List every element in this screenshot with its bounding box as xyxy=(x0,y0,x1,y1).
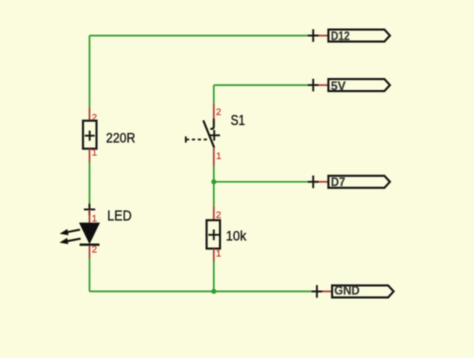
pin 1 of R1 xyxy=(89,149,91,162)
svg-text:1: 1 xyxy=(216,151,221,162)
svg-text:1: 1 xyxy=(216,249,221,260)
pennant outline of 5V flag xyxy=(328,79,390,91)
pin 2 of R2 xyxy=(213,206,215,220)
junction node GND xyxy=(211,289,216,294)
pin 2 of S1 xyxy=(213,104,215,119)
pin of D12 flag xyxy=(313,35,328,37)
wire middle vertical segment between S1 and R2 10k xyxy=(213,166,215,206)
resistor R1 220R xyxy=(83,108,135,162)
pin of 5V flag xyxy=(313,84,328,86)
origin cross of LED xyxy=(84,204,95,215)
pin of D7 flag xyxy=(313,181,328,183)
wire left vertical segment below LED xyxy=(89,258,91,291)
pennant outline of GND flag xyxy=(332,285,394,297)
origin cross of D12 flag xyxy=(308,29,319,42)
pin 2 of LED xyxy=(89,246,91,258)
wire net D12 top horizontal xyxy=(90,35,310,37)
pin 2 of R1 xyxy=(89,108,91,121)
origin cross of R1 xyxy=(85,131,95,141)
origin cross of GND flag xyxy=(312,285,323,298)
pin 1 of S1 xyxy=(213,148,215,166)
wire net 5V horizontal xyxy=(214,84,309,86)
body of R2 xyxy=(207,220,220,248)
pin 1 of R2 xyxy=(213,249,215,262)
svg-text:2: 2 xyxy=(92,244,97,255)
svg-text:10k: 10k xyxy=(226,228,247,244)
wire middle vertical segment below R2 10k xyxy=(213,262,215,292)
LED D1 xyxy=(59,204,131,258)
actuator tick of S1 xyxy=(185,136,187,142)
origin cross of D7 flag xyxy=(308,176,319,189)
pin of GND flag xyxy=(317,290,332,292)
origin cross of S1 xyxy=(209,130,220,141)
body of R1 xyxy=(83,121,97,149)
net flag D7 xyxy=(308,175,390,189)
svg-text:5V: 5V xyxy=(331,79,347,93)
pennant outline of D7 flag xyxy=(328,176,390,188)
wire middle vertical segment above S1 xyxy=(213,85,215,104)
svg-text:S1: S1 xyxy=(231,113,245,129)
svg-text:LED: LED xyxy=(107,208,132,225)
pennant outline of D12 flag xyxy=(328,30,390,42)
svg-text:D12: D12 xyxy=(331,29,350,43)
svg-text:1: 1 xyxy=(92,148,97,159)
wire left vertical segment between R1 and LED xyxy=(89,162,91,210)
fixed contact of S1 xyxy=(210,119,214,129)
anode triangle of LED xyxy=(79,223,100,245)
svg-text:2: 2 xyxy=(216,107,221,118)
net flag GND xyxy=(312,284,394,298)
light arrow 1 of LED xyxy=(60,229,80,235)
net flag 5V xyxy=(308,79,390,93)
origin cross of R2 xyxy=(208,230,219,241)
origin cross of 5V flag xyxy=(308,79,319,92)
cathode bar of LED xyxy=(80,244,100,246)
lever of S1 xyxy=(203,120,214,147)
resistor R2 10k xyxy=(207,206,248,262)
wire net D7 horizontal xyxy=(214,181,309,183)
junction node D7 xyxy=(211,179,216,184)
light arrow 2 of LED xyxy=(59,238,80,244)
switch S1 xyxy=(186,104,245,166)
svg-text:GND: GND xyxy=(334,284,359,298)
svg-text:220R: 220R xyxy=(106,129,135,145)
svg-text:D7: D7 xyxy=(331,175,345,189)
actuator dashed link of S1 xyxy=(186,139,210,141)
wire net GND bottom horizontal xyxy=(90,290,313,292)
wire left vertical segment above R1 220R xyxy=(89,36,91,108)
pin 1 of LED xyxy=(89,209,91,222)
net flag D12 xyxy=(308,29,390,43)
